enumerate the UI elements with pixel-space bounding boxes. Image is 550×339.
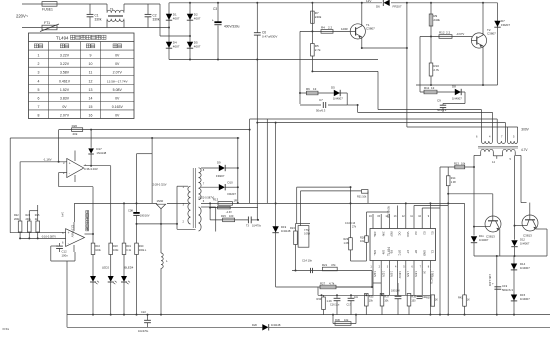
svg-text:C14 10n: C14 10n — [302, 259, 313, 263]
svg-text:1N60: 1N60 — [157, 199, 164, 203]
svg-text:-1.16V: -1.16V — [43, 157, 52, 161]
svg-text:240k: 240k — [26, 218, 32, 221]
svg-text:C1: C1 — [431, 250, 435, 254]
svg-text:R4: R4 — [321, 26, 325, 30]
svg-text:330k: 330k — [153, 18, 160, 22]
svg-text:D12: D12 — [520, 238, 525, 242]
svg-text:2.07V: 2.07V — [431, 271, 433, 277]
svg-text:R27: R27 — [320, 282, 326, 286]
svg-text:REF: REF — [390, 232, 394, 238]
svg-text:0V: 0V — [115, 62, 120, 66]
svg-text:0V: 0V — [62, 105, 67, 109]
svg-text:16: 16 — [89, 114, 93, 118]
svg-text:R14: R14 — [451, 177, 456, 180]
svg-text:1IN+: 1IN+ — [373, 250, 377, 256]
svg-text:4.7V: 4.7V — [521, 148, 528, 152]
svg-text:1N4148: 1N4148 — [96, 151, 106, 155]
svg-text:1IN-: 1IN- — [381, 250, 385, 255]
svg-text:R35: R35 — [369, 296, 374, 299]
svg-text:1N4007: 1N4007 — [520, 297, 530, 301]
svg-text:11: 11 — [89, 71, 93, 75]
svg-text:5.08V: 5.08V — [113, 88, 123, 92]
svg-text:TL494: TL494 — [56, 36, 69, 41]
svg-text:E1: E1 — [431, 232, 435, 236]
svg-text:R22: R22 — [14, 214, 19, 217]
svg-text:3.83V: 3.83V — [414, 271, 416, 277]
svg-text:2IN+: 2IN+ — [373, 232, 377, 238]
svg-text:13: 13 — [431, 86, 435, 90]
svg-text:2.7k: 2.7k — [315, 48, 321, 52]
svg-text:1: 1 — [38, 54, 40, 58]
svg-text:D5: D5 — [331, 86, 335, 90]
svg-text:R33: R33 — [317, 297, 322, 301]
svg-text:R18: R18 — [113, 245, 118, 248]
svg-text:C3: C3 — [213, 7, 217, 11]
svg-text:0V: 0V — [422, 271, 424, 274]
svg-text:13.58—17.74V: 13.58—17.74V — [107, 79, 129, 83]
svg-text:240k: 240k — [315, 15, 322, 19]
svg-text:50n/6.3: 50n/6.3 — [437, 108, 447, 112]
svg-text:300V: 300V — [521, 128, 529, 132]
svg-text:R21: R21 — [322, 263, 328, 267]
svg-text:R16: R16 — [95, 245, 100, 248]
svg-text:FR207: FR207 — [228, 192, 237, 196]
svg-text:R19: R19 — [126, 245, 131, 248]
svg-text:240k: 240k — [433, 18, 440, 22]
svg-text:R41: R41 — [458, 297, 463, 300]
svg-text:3.83V: 3.83V — [60, 96, 70, 100]
svg-text:FR207: FR207 — [393, 4, 402, 8]
svg-text:3.22V: 3.22V — [381, 271, 383, 277]
svg-text:R26: R26 — [72, 124, 78, 128]
svg-text:FT1: FT1 — [44, 21, 50, 25]
svg-text:R38: R38 — [411, 296, 416, 299]
svg-text:D8: D8 — [452, 85, 456, 89]
svg-text:100n: 100n — [62, 254, 69, 258]
svg-text:400V/330u: 400V/330u — [224, 25, 240, 29]
svg-text:2.2: 2.2 — [446, 31, 451, 35]
svg-text:12V: 12V — [366, 0, 371, 3]
svg-text:E2: E2 — [422, 232, 426, 236]
svg-text:C16 11n: C16 11n — [330, 304, 340, 307]
svg-text:-0.67V: -0.67V — [456, 32, 464, 36]
svg-text:CT: CT — [406, 250, 410, 254]
svg-text:1.2K: 1.2K — [327, 299, 333, 303]
svg-text:330k: 330k — [95, 18, 102, 22]
svg-text:2.7k: 2.7k — [433, 68, 439, 72]
svg-text:1.08: 1.08 — [451, 181, 456, 184]
svg-text:4007: 4007 — [173, 17, 180, 21]
svg-text:R24: R24 — [290, 226, 295, 230]
svg-text:+: + — [69, 162, 71, 166]
svg-text:R13: R13 — [454, 161, 459, 165]
svg-text:1N4007: 1N4007 — [479, 238, 489, 242]
svg-text:BLED4: BLED4 — [125, 266, 134, 270]
svg-text:7.5V: 7.5V — [304, 228, 310, 232]
svg-text:2.07V: 2.07V — [113, 71, 123, 75]
svg-text:0.5W: 0.5W — [304, 232, 311, 236]
svg-text:-4.3V: -4.3V — [226, 211, 232, 214]
svg-text:10n/470s: 10n/470s — [138, 330, 149, 333]
svg-text:2: 2 — [38, 62, 40, 66]
svg-text:R31 10k: R31 10k — [357, 196, 367, 199]
svg-text:20k: 20k — [73, 132, 78, 136]
svg-text:C7: C7 — [319, 98, 323, 102]
svg-text:R36: R36 — [335, 318, 340, 322]
svg-text:OC: OC — [398, 232, 402, 236]
svg-text:100/16V: 100/16V — [140, 214, 150, 218]
svg-text:12.1-24.6V: 12.1-24.6V — [71, 225, 74, 238]
svg-text:3.58V: 3.58V — [390, 271, 392, 277]
svg-text:1K: 1K — [467, 299, 470, 302]
svg-text:10: 10 — [89, 62, 93, 66]
svg-text:0.47u/630V: 0.47u/630V — [262, 35, 277, 39]
svg-text:R29: R29 — [344, 238, 349, 241]
svg-text:VCC: VCC — [406, 232, 410, 238]
svg-text:47k: 47k — [331, 263, 336, 267]
svg-text:1N4007: 1N4007 — [520, 266, 530, 270]
svg-text:(0.28-0.32)V: (0.28-0.32)V — [152, 183, 167, 187]
svg-text:3.22V: 3.22V — [60, 62, 70, 66]
svg-text:(0.22-0.587V): (0.22-0.587V) — [198, 196, 214, 200]
svg-text:0.163V: 0.163V — [112, 105, 124, 109]
svg-text:7: 7 — [38, 105, 40, 109]
svg-text:15: 15 — [89, 105, 93, 109]
svg-text:≈0.5m: ≈0.5m — [2, 327, 9, 331]
svg-text:RT: RT — [414, 250, 418, 254]
svg-text:8: 8 — [38, 114, 40, 118]
svg-text:3.22V: 3.22V — [373, 271, 375, 277]
svg-text:C3807: C3807 — [487, 32, 496, 36]
svg-text:R12: R12 — [439, 31, 445, 35]
svg-text:1K: 1K — [435, 299, 438, 302]
svg-text:100k: 100k — [113, 249, 119, 252]
svg-text:4007: 4007 — [173, 45, 180, 49]
svg-text:R11: R11 — [424, 86, 430, 90]
svg-text:0V: 0V — [115, 96, 120, 100]
svg-text:3: 3 — [38, 71, 40, 75]
svg-text:13: 13 — [89, 88, 93, 92]
svg-text:C2: C2 — [414, 232, 418, 236]
svg-text:0.461V: 0.461V — [59, 79, 71, 83]
svg-text:1N4148: 1N4148 — [271, 323, 281, 327]
svg-text:C3807: C3807 — [366, 27, 375, 31]
svg-text:10k: 10k — [461, 161, 466, 165]
svg-text:1.08: 1.08 — [344, 242, 349, 245]
svg-text:0V: 0V — [115, 54, 120, 58]
svg-text:1R: 1R — [234, 199, 238, 203]
svg-text:L3B-1-302: L3B-1-302 — [488, 274, 492, 287]
svg-text:R15: R15 — [221, 214, 226, 218]
svg-text:4007: 4007 — [194, 45, 201, 49]
svg-text:2.07V: 2.07V — [60, 114, 70, 118]
svg-text:REF(5.08V): REF(5.08V) — [387, 206, 389, 218]
svg-text:1.52V: 1.52V — [406, 271, 408, 277]
svg-text:120R: 120R — [341, 27, 348, 31]
svg-text:220V~: 220V~ — [16, 14, 29, 19]
svg-text:150: 150 — [411, 300, 416, 303]
svg-text:10k: 10k — [344, 318, 349, 322]
svg-text:DTC: DTC — [398, 250, 402, 256]
svg-text:D11: D11 — [479, 234, 484, 238]
svg-text:0V: 0V — [115, 114, 120, 118]
svg-text:1.52V: 1.52V — [60, 88, 70, 92]
svg-text:12: 12 — [89, 79, 93, 83]
svg-text:1N4007: 1N4007 — [333, 97, 343, 101]
svg-text:-0.16-0.587V: -0.16-0.587V — [41, 234, 56, 238]
svg-text:4007: 4007 — [194, 17, 201, 21]
svg-text:C9: C9 — [437, 99, 441, 103]
svg-text:200k: 200k — [14, 218, 20, 221]
svg-text:500n/6.3: 500n/6.3 — [502, 288, 513, 292]
svg-text:C3813: C3813 — [523, 234, 532, 238]
svg-text:10n: 10n — [354, 296, 359, 299]
svg-text:0.36-3.04V: 0.36-3.04V — [84, 167, 98, 171]
svg-text:50n/6.3: 50n/6.3 — [316, 109, 326, 113]
svg-text:R6: R6 — [306, 87, 310, 91]
svg-text:2IN-: 2IN- — [381, 232, 385, 237]
svg-text:R23: R23 — [26, 214, 31, 217]
svg-text:4: 4 — [38, 79, 40, 83]
svg-text:+: + — [492, 282, 494, 286]
svg-text:R39: R39 — [426, 297, 431, 300]
svg-text:0.1k: 0.1k — [126, 249, 131, 252]
svg-text:3.58V: 3.58V — [60, 71, 70, 75]
svg-text:FR207: FR207 — [501, 23, 510, 27]
svg-text:D6: D6 — [376, 4, 380, 8]
svg-text:14: 14 — [89, 96, 93, 100]
svg-text:GND: GND — [422, 250, 426, 256]
svg-text:6: 6 — [38, 96, 40, 100]
svg-text:+: + — [212, 18, 214, 22]
svg-text:0.461V: 0.461V — [398, 271, 400, 279]
svg-text:100: 100 — [229, 214, 234, 218]
svg-text:3.22V: 3.22V — [60, 54, 70, 58]
svg-text:R20: R20 — [139, 245, 144, 248]
svg-text:100k: 100k — [95, 249, 101, 252]
svg-text:FR207: FR207 — [216, 174, 225, 178]
svg-text:+: + — [68, 231, 70, 235]
svg-text:C3813: C3813 — [486, 235, 495, 239]
svg-text:LED2: LED2 — [102, 266, 109, 270]
svg-text:2.2: 2.2 — [328, 26, 333, 30]
svg-text:T1: T1 — [110, 7, 114, 11]
svg-text:C22: C22 — [141, 310, 146, 314]
svg-text:C20: C20 — [128, 209, 133, 213]
svg-text:D9: D9 — [217, 161, 221, 165]
svg-text:100k.L: 100k.L — [139, 249, 147, 252]
svg-text:R37: R37 — [384, 296, 389, 299]
svg-text:13: 13 — [313, 87, 317, 91]
svg-text:D19: D19 — [281, 225, 287, 229]
svg-text:5: 5 — [38, 88, 40, 92]
svg-text:0.4V: 0.4V — [61, 212, 64, 217]
svg-text:TL494: TL494 — [387, 247, 391, 256]
svg-text:9: 9 — [90, 54, 92, 58]
svg-text:1N4007: 1N4007 — [452, 97, 462, 101]
svg-text:100/16V: 100/16V — [391, 290, 400, 293]
svg-text:D10: D10 — [228, 181, 234, 185]
svg-text:10/470s: 10/470s — [252, 225, 262, 228]
svg-text:D20: D20 — [252, 323, 257, 327]
svg-text:FUSE1: FUSE1 — [42, 8, 53, 12]
svg-text:1N4007: 1N4007 — [520, 242, 530, 246]
svg-text:4.7k: 4.7k — [329, 282, 335, 286]
